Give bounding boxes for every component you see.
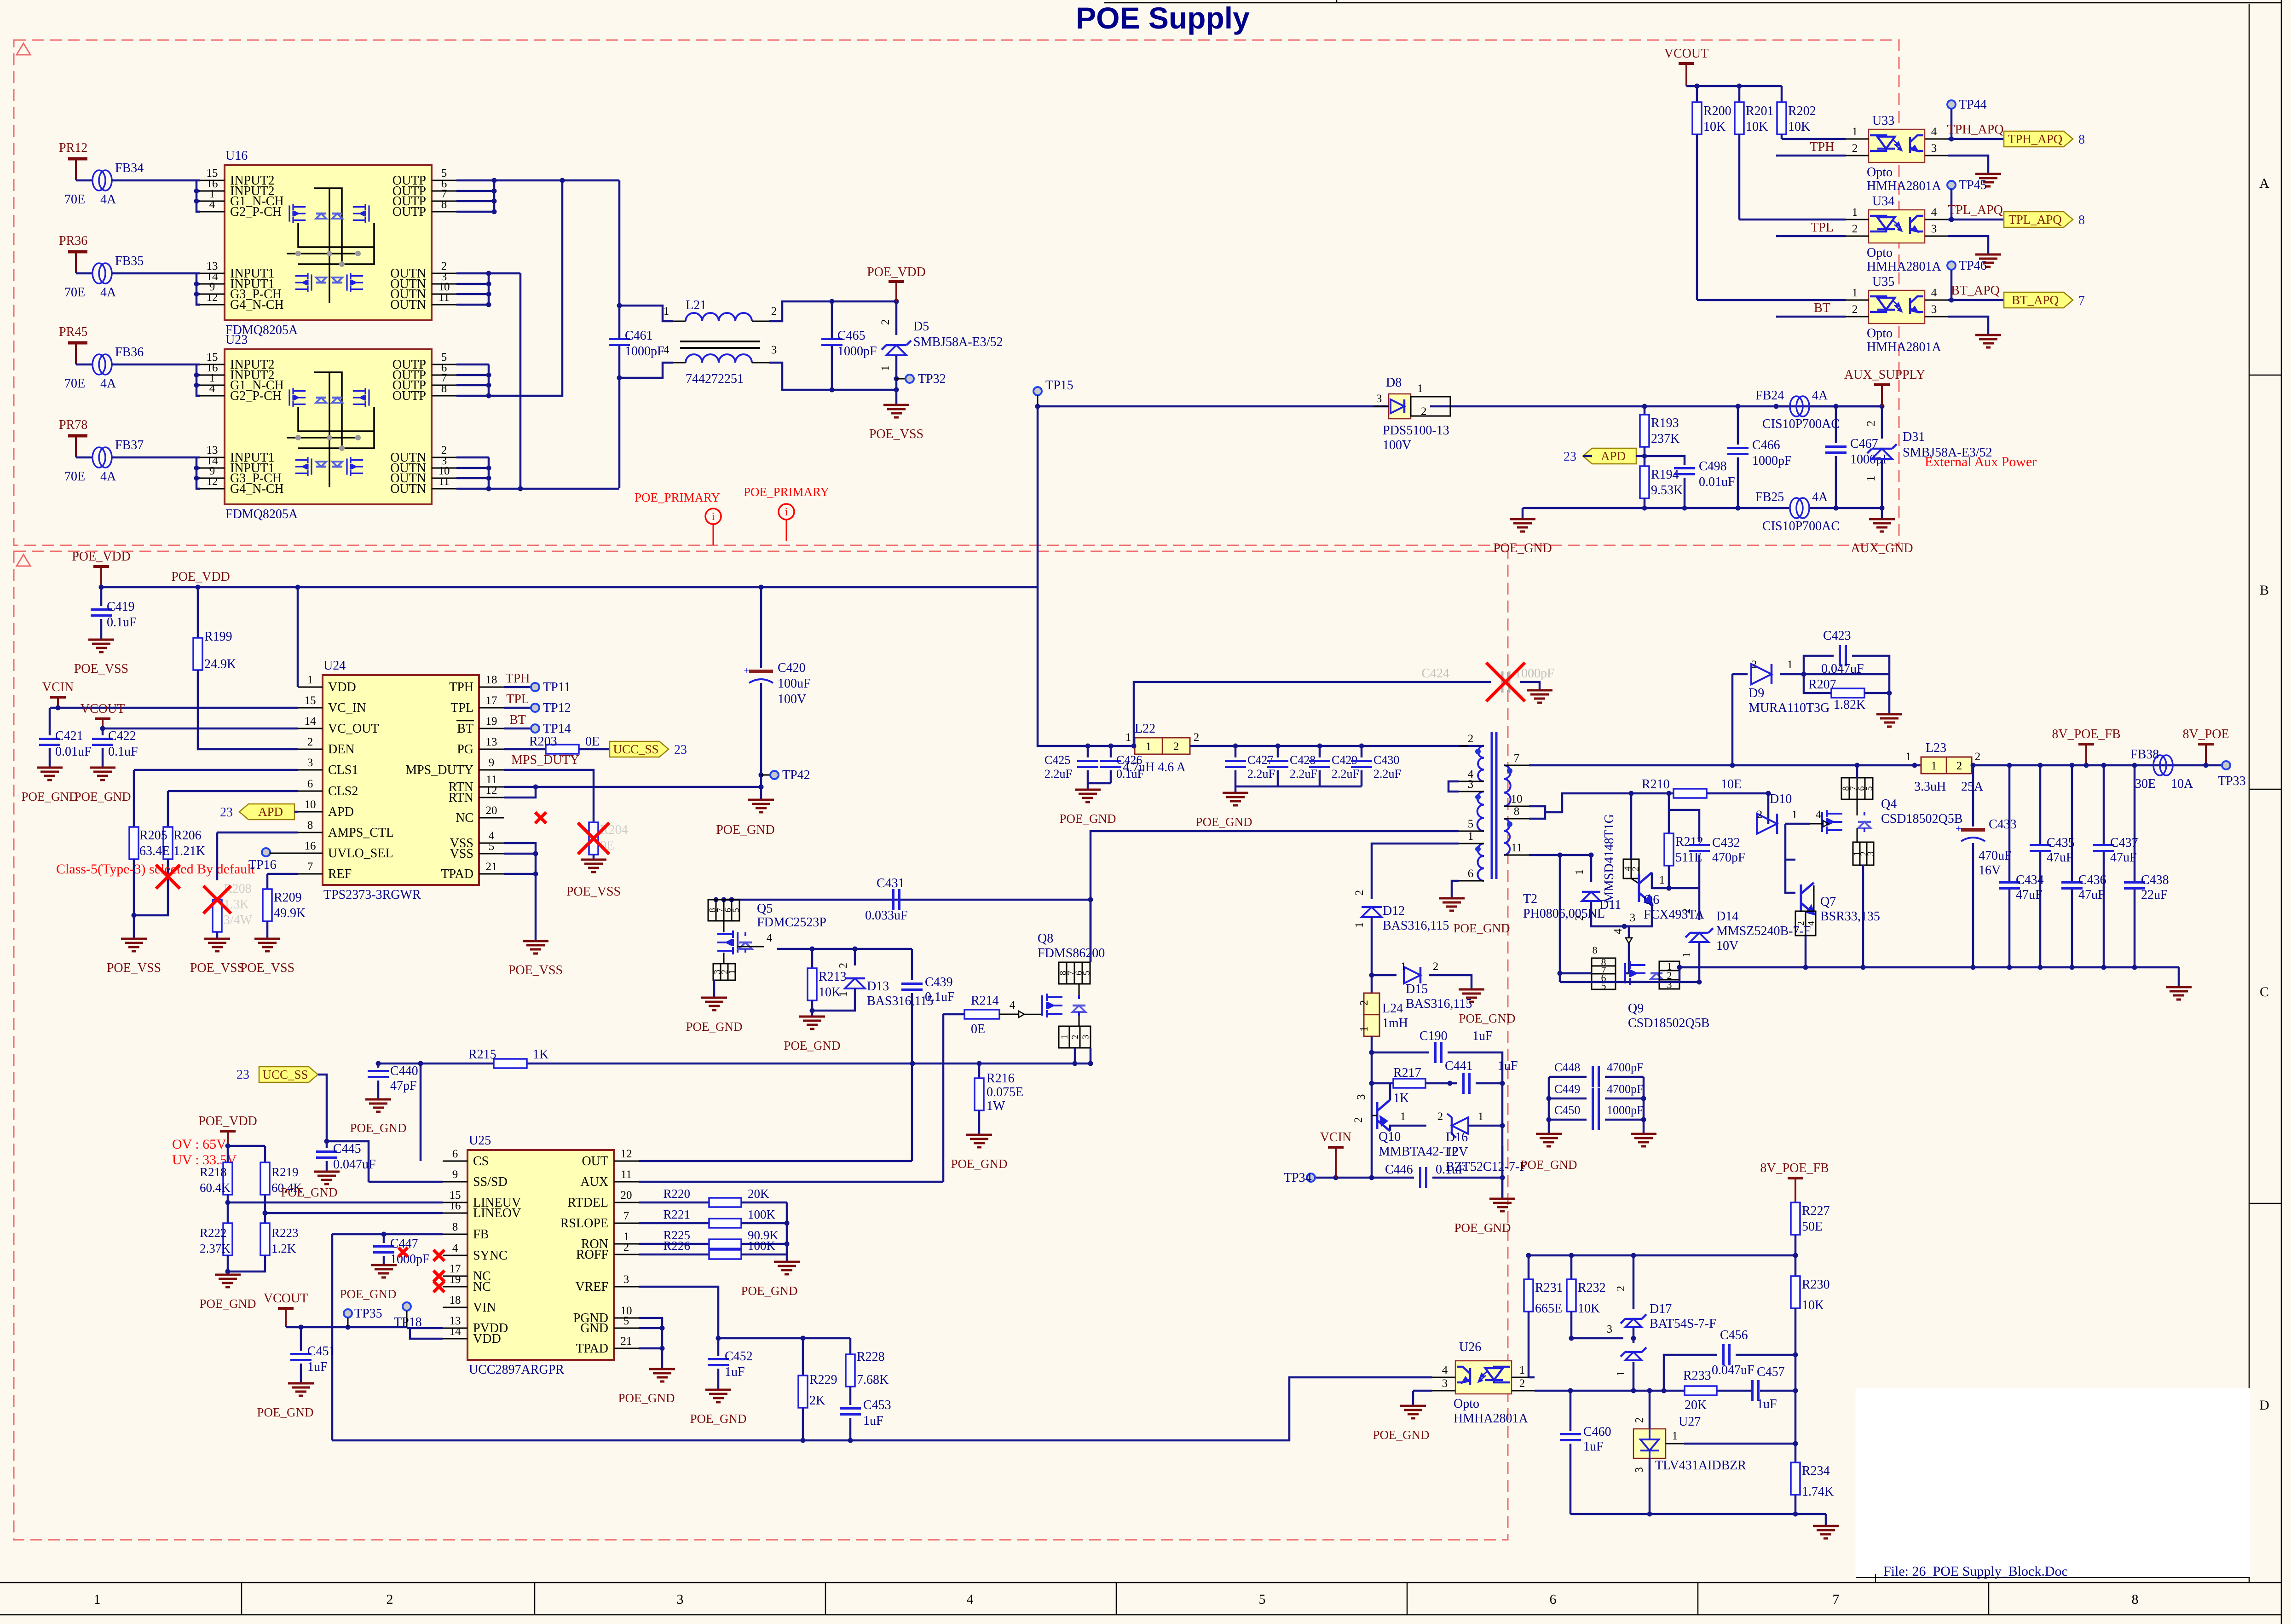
svg-text:PH0806,005NL: PH0806,005NL (1523, 907, 1605, 921)
svg-text:OUTN: OUTN (390, 482, 426, 496)
svg-text:POE_VDD: POE_VDD (72, 549, 131, 564)
svg-text:1K: 1K (533, 1047, 548, 1062)
svg-text:TPL: TPL (506, 692, 529, 706)
svg-text:TPH: TPH (1810, 140, 1835, 154)
svg-text:70E: 70E (64, 469, 85, 484)
svg-text:Q10: Q10 (1379, 1130, 1401, 1144)
svg-text:A: A (2259, 176, 2269, 191)
svg-text:D17: D17 (1650, 1302, 1672, 1316)
svg-text:7: 7 (623, 1210, 629, 1222)
svg-text:VIN: VIN (473, 1300, 496, 1315)
svg-text:1: 1 (94, 1592, 101, 1607)
svg-text:2: 2 (307, 736, 313, 748)
svg-text:U24: U24 (323, 659, 346, 673)
svg-text:TP33: TP33 (2218, 774, 2246, 788)
svg-text:C425: C425 (1045, 753, 1070, 767)
svg-text:POE_GND: POE_GND (257, 1405, 313, 1419)
svg-text:0.1uF: 0.1uF (1436, 1162, 1466, 1177)
svg-text:R200: R200 (1703, 104, 1731, 118)
svg-text:APD: APD (1601, 449, 1626, 463)
svg-text:NC: NC (456, 811, 473, 825)
svg-text:G2_P-CH: G2_P-CH (230, 205, 282, 219)
svg-text:2: 2 (1975, 751, 1981, 763)
svg-text:POE_GND: POE_GND (784, 1039, 840, 1052)
svg-text:0.075E: 0.075E (987, 1085, 1023, 1099)
svg-text:R228: R228 (857, 1350, 885, 1364)
svg-text:100V: 100V (778, 692, 806, 706)
svg-text:100K: 100K (748, 1208, 776, 1221)
svg-text:C430: C430 (1373, 753, 1399, 767)
svg-text:C432: C432 (1712, 836, 1740, 850)
svg-text:1: 1 (1146, 740, 1152, 753)
svg-text:C419: C419 (107, 600, 135, 614)
svg-text:POE_GND: POE_GND (686, 1020, 742, 1034)
svg-text:4: 4 (1931, 126, 1937, 138)
svg-text:PR12: PR12 (59, 141, 87, 155)
svg-text:2: 2 (1353, 890, 1366, 896)
svg-text:2: 2 (1468, 733, 1474, 745)
svg-text:TP16: TP16 (248, 858, 277, 872)
svg-text:POE_GND: POE_GND (1059, 812, 1116, 826)
svg-text:C445: C445 (333, 1142, 361, 1156)
svg-text:1.21K: 1.21K (173, 844, 205, 858)
svg-text:7: 7 (1514, 752, 1520, 764)
svg-text:3: 3 (1866, 851, 1876, 856)
svg-text:RTDEL: RTDEL (567, 1196, 608, 1210)
svg-text:0.01uF: 0.01uF (55, 745, 92, 759)
svg-text:47pF: 47pF (390, 1079, 417, 1093)
svg-text:63.4E: 63.4E (139, 844, 170, 858)
svg-text:8: 8 (2132, 1592, 2139, 1607)
svg-text:C466: C466 (1752, 438, 1780, 452)
svg-text:R205: R205 (139, 828, 167, 843)
svg-text:4: 4 (967, 1592, 974, 1607)
svg-text:4: 4 (452, 1242, 458, 1254)
svg-text:19: 19 (486, 715, 497, 728)
svg-text:2: 2 (1852, 303, 1858, 316)
svg-text:POE_VDD: POE_VDD (171, 570, 230, 584)
svg-text:2: 2 (1437, 1110, 1443, 1123)
svg-text:POE_VSS: POE_VSS (107, 961, 161, 975)
svg-text:POE_GND: POE_GND (1453, 921, 1510, 935)
svg-text:2: 2 (1956, 760, 1962, 772)
svg-text:4A: 4A (100, 469, 116, 484)
svg-text:10K: 10K (1788, 120, 1810, 134)
svg-text:R199: R199 (204, 630, 232, 644)
svg-text:100uF: 100uF (778, 676, 811, 691)
svg-text:C461: C461 (625, 329, 653, 343)
svg-text:11: 11 (621, 1168, 632, 1181)
svg-text:C441: C441 (1445, 1059, 1473, 1073)
svg-text:21: 21 (486, 861, 497, 873)
svg-text:1: 1 (1792, 809, 1798, 821)
svg-text:GND: GND (580, 1321, 608, 1335)
svg-text:D8: D8 (1386, 376, 1402, 390)
svg-text:6: 6 (452, 1148, 458, 1160)
svg-text:2: 2 (1633, 1417, 1645, 1423)
svg-text:100K: 100K (748, 1239, 776, 1253)
svg-text:File: 26_POE Supply_Block.D: File: 26_POE Supply_Block.Doc (1883, 1564, 2068, 1579)
svg-text:1: 1 (1060, 1035, 1070, 1040)
svg-text:8V_POE_FB: 8V_POE_FB (1760, 1161, 1829, 1175)
svg-text:2: 2 (1173, 740, 1179, 753)
svg-text:60.4K: 60.4K (200, 1181, 231, 1195)
svg-text:2: 2 (1757, 809, 1763, 821)
svg-text:237K: 237K (1651, 432, 1679, 446)
svg-text:1: 1 (837, 991, 849, 997)
svg-text:TP35: TP35 (354, 1306, 382, 1321)
svg-text:7: 7 (1833, 1592, 1840, 1607)
svg-text:23: 23 (237, 1068, 249, 1082)
svg-text:10K: 10K (1578, 1301, 1600, 1316)
svg-text:POE_GND: POE_GND (199, 1297, 256, 1311)
svg-text:C453: C453 (863, 1398, 891, 1412)
svg-text:6: 6 (1550, 1592, 1557, 1607)
svg-text:POE_GND: POE_GND (1373, 1428, 1429, 1442)
svg-text:POE_PRIMARY: POE_PRIMARY (635, 491, 720, 504)
svg-text:16: 16 (305, 840, 316, 852)
svg-text:C421: C421 (55, 729, 83, 743)
svg-text:8: 8 (441, 198, 447, 211)
svg-text:12V: 12V (1446, 1145, 1468, 1159)
svg-text:CLS2: CLS2 (328, 784, 358, 798)
svg-text:70E: 70E (64, 376, 85, 391)
svg-text:C434: C434 (2016, 873, 2044, 887)
svg-text:2: 2 (879, 319, 892, 325)
svg-text:6: 6 (307, 778, 313, 790)
svg-text:7: 7 (2078, 294, 2085, 308)
svg-text:C449: C449 (1554, 1082, 1580, 1096)
svg-text:R210: R210 (1642, 777, 1670, 792)
svg-text:G4_N-CH: G4_N-CH (230, 482, 284, 496)
svg-text:TPH: TPH (449, 680, 473, 694)
svg-text:PR36: PR36 (59, 234, 87, 248)
svg-text:PR78: PR78 (59, 418, 87, 432)
svg-text:TPL: TPL (450, 701, 473, 715)
svg-text:POE_VSS: POE_VSS (190, 961, 244, 975)
svg-text:R231: R231 (1535, 1281, 1563, 1295)
svg-text:0.033uF: 0.033uF (865, 908, 908, 923)
svg-text:11: 11 (439, 291, 450, 304)
svg-text:L22: L22 (1135, 722, 1155, 736)
svg-text:30E: 30E (2135, 777, 2156, 791)
svg-text:1: 1 (1852, 206, 1858, 219)
svg-text:0.047uF: 0.047uF (1712, 1363, 1754, 1377)
svg-text:OUTN: OUTN (390, 298, 426, 312)
svg-text:3: 3 (1630, 912, 1636, 924)
svg-text:3: 3 (677, 1592, 684, 1607)
svg-text:2.2uF: 2.2uF (1373, 767, 1401, 780)
svg-text:VDD: VDD (473, 1332, 501, 1346)
svg-text:3: 3 (1931, 223, 1937, 235)
svg-text:9: 9 (489, 757, 495, 769)
svg-text:4A: 4A (1812, 490, 1828, 504)
svg-text:C440: C440 (390, 1064, 418, 1078)
svg-text:2: 2 (1865, 421, 1877, 427)
svg-text:2: 2 (1358, 1000, 1370, 1006)
svg-text:Opto: Opto (1867, 246, 1893, 260)
svg-text:R217: R217 (1393, 1066, 1421, 1080)
svg-text:POE_GND: POE_GND (716, 823, 775, 837)
svg-text:U23: U23 (225, 333, 248, 347)
svg-text:0.047uF: 0.047uF (333, 1157, 376, 1172)
svg-text:PDS5100-13: PDS5100-13 (1383, 423, 1449, 438)
svg-text:POE_VSS: POE_VSS (508, 963, 563, 977)
svg-text:2: 2 (387, 1592, 393, 1607)
svg-text:1: 1 (879, 365, 892, 371)
svg-text:Opto: Opto (1867, 326, 1893, 341)
svg-text:AMPS_CTL: AMPS_CTL (328, 826, 394, 840)
svg-text:U33: U33 (1872, 114, 1894, 128)
svg-text:R223: R223 (271, 1226, 299, 1240)
svg-text:POE_VSS: POE_VSS (566, 884, 621, 899)
svg-text:Q7: Q7 (1820, 895, 1836, 909)
svg-text:4: 4 (664, 344, 669, 356)
svg-text:16: 16 (450, 1200, 461, 1212)
svg-text:R207: R207 (1808, 677, 1836, 692)
svg-text:SS/SD: SS/SD (473, 1175, 508, 1189)
svg-text:49.9K: 49.9K (274, 906, 306, 920)
svg-text:2: 2 (1421, 405, 1427, 418)
svg-text:RTN: RTN (449, 791, 473, 805)
svg-text:C452: C452 (725, 1349, 753, 1364)
svg-text:511E: 511E (1675, 850, 1702, 865)
svg-text:19: 19 (450, 1273, 461, 1286)
svg-text:POE_GND: POE_GND (281, 1185, 337, 1199)
svg-text:HMHA2801A: HMHA2801A (1867, 179, 1942, 193)
svg-text:Opto: Opto (1867, 165, 1893, 179)
svg-text:R230: R230 (1802, 1277, 1830, 1292)
svg-text:1uF: 1uF (863, 1414, 883, 1428)
svg-text:16V: 16V (1979, 863, 2001, 878)
svg-text:1: 1 (1401, 960, 1407, 973)
svg-text:1: 1 (1931, 760, 1937, 772)
svg-text:BT: BT (509, 713, 526, 727)
svg-text:U16: U16 (225, 149, 248, 163)
svg-text:2: 2 (1751, 659, 1757, 671)
svg-text:R193: R193 (1651, 416, 1679, 430)
svg-text:20: 20 (486, 804, 497, 817)
svg-text:1: 1 (1905, 751, 1911, 763)
svg-text:1: 1 (1125, 731, 1131, 744)
svg-text:HMHA2801A: HMHA2801A (1867, 260, 1942, 274)
svg-text:POE_VSS: POE_VSS (74, 662, 128, 676)
svg-text:7.68K: 7.68K (857, 1373, 889, 1387)
svg-text:CSD18502Q5B: CSD18502Q5B (1881, 812, 1962, 826)
svg-text:POE_VDD: POE_VDD (198, 1114, 257, 1128)
svg-text:744272251: 744272251 (686, 372, 744, 386)
svg-text:22uF: 22uF (2141, 888, 2168, 902)
svg-text:4: 4 (1816, 809, 1822, 821)
svg-text:23: 23 (220, 805, 233, 820)
svg-text:R220: R220 (663, 1187, 690, 1201)
svg-text:8: 8 (2078, 133, 2085, 147)
svg-text:2: 2 (623, 1241, 629, 1254)
svg-text:3: 3 (1355, 1094, 1368, 1100)
svg-text:23: 23 (674, 743, 687, 757)
svg-text:Class-5(Type-3) selected By de: Class-5(Type-3) selected By default (56, 861, 255, 877)
svg-text:8: 8 (452, 1221, 458, 1233)
svg-text:TP45: TP45 (1959, 178, 1987, 192)
svg-text:TP34: TP34 (1284, 1171, 1312, 1185)
svg-text:R222: R222 (200, 1226, 227, 1240)
svg-text:FB25: FB25 (1755, 490, 1784, 504)
svg-text:U34: U34 (1872, 194, 1894, 208)
svg-text:i: i (712, 511, 715, 523)
svg-text:TP15: TP15 (1045, 378, 1073, 393)
svg-text:VCOUT: VCOUT (1664, 46, 1708, 61)
svg-text:47uF: 47uF (2078, 888, 2105, 902)
svg-text:R213: R213 (819, 970, 847, 984)
svg-text:4A: 4A (100, 376, 116, 391)
svg-text:3.3uH: 3.3uH (1914, 780, 1946, 794)
svg-text:1: 1 (1852, 287, 1858, 299)
svg-text:FDMQ8205A: FDMQ8205A (225, 507, 298, 521)
svg-text:FB34: FB34 (115, 161, 144, 175)
svg-text:POE Supply: POE Supply (1076, 1, 1250, 35)
svg-text:Q5: Q5 (757, 902, 773, 916)
svg-text:4: 4 (767, 932, 773, 944)
svg-text:C433: C433 (1989, 817, 2017, 832)
svg-text:3: 3 (771, 344, 777, 356)
svg-text:10K: 10K (1802, 1298, 1824, 1312)
svg-text:External Aux Power: External Aux Power (1925, 454, 2037, 469)
svg-text:5: 5 (1259, 1592, 1266, 1607)
svg-text:POE_GND: POE_GND (1520, 1158, 1577, 1172)
svg-text:D12: D12 (1383, 904, 1405, 918)
svg-text:C435: C435 (2047, 836, 2075, 850)
svg-text:1: 1 (1865, 476, 1877, 482)
svg-text:C437: C437 (2110, 836, 2138, 850)
svg-text:PG: PG (457, 742, 473, 757)
svg-text:U27: U27 (1679, 1415, 1701, 1429)
svg-text:47uF: 47uF (2110, 850, 2137, 865)
svg-text:C424: C424 (1421, 666, 1449, 681)
svg-text:1K: 1K (1393, 1091, 1409, 1105)
svg-text:NC: NC (473, 1280, 491, 1294)
svg-text:TPAD: TPAD (441, 867, 473, 881)
svg-text:18: 18 (486, 674, 497, 686)
svg-text:2: 2 (1631, 867, 1641, 871)
svg-text:4: 4 (1010, 999, 1016, 1011)
svg-text:TP42: TP42 (782, 768, 810, 782)
svg-text:D10: D10 (1770, 792, 1792, 806)
svg-text:4: 4 (1442, 1364, 1448, 1376)
svg-text:2.37K: 2.37K (200, 1242, 231, 1255)
svg-text:21: 21 (621, 1335, 632, 1347)
svg-text:VCOUT: VCOUT (81, 702, 125, 716)
svg-text:R201: R201 (1746, 104, 1774, 118)
svg-text:CIS10P700AC: CIS10P700AC (1762, 519, 1840, 533)
svg-text:i: i (785, 506, 788, 518)
svg-text:D5: D5 (913, 319, 929, 334)
svg-text:TLV431AIDBZR: TLV431AIDBZR (1655, 1458, 1746, 1473)
svg-text:FB: FB (473, 1227, 489, 1242)
svg-text:R233: R233 (1683, 1369, 1711, 1383)
svg-text:R234: R234 (1802, 1464, 1830, 1478)
svg-text:1: 1 (1478, 1110, 1484, 1123)
svg-text:TPH_APQ: TPH_APQ (2008, 132, 2063, 146)
svg-text:1uF: 1uF (1757, 1397, 1777, 1411)
svg-text:1000pF: 1000pF (1607, 1104, 1643, 1117)
svg-text:CSD18502Q5B: CSD18502Q5B (1628, 1016, 1709, 1030)
svg-text:MMSZ5240B-7-F: MMSZ5240B-7-F (1716, 924, 1811, 938)
svg-text:POE_GND: POE_GND (618, 1391, 675, 1405)
svg-text:TPL_APQ: TPL_APQ (1948, 203, 2003, 217)
svg-text:5: 5 (623, 1315, 629, 1327)
svg-text:CLS1: CLS1 (328, 763, 358, 777)
svg-text:POE_GND: POE_GND (340, 1287, 396, 1301)
svg-text:POE_GND: POE_GND (1493, 541, 1552, 555)
svg-text:R206: R206 (173, 828, 202, 843)
svg-text:FB37: FB37 (115, 438, 144, 452)
svg-text:MPS_DUTY: MPS_DUTY (511, 753, 579, 767)
svg-text:BAS316,115: BAS316,115 (867, 994, 933, 1008)
svg-text:BAS316,115: BAS316,115 (1383, 919, 1449, 933)
svg-text:2: 2 (1519, 1377, 1525, 1390)
svg-text:POE_GND: POE_GND (21, 790, 78, 803)
svg-text:POE_GND: POE_GND (741, 1284, 797, 1298)
svg-text:12: 12 (486, 784, 497, 797)
svg-text:C448: C448 (1554, 1061, 1580, 1074)
svg-text:C457: C457 (1757, 1365, 1785, 1379)
svg-text:HMHA2801A: HMHA2801A (1454, 1411, 1529, 1426)
svg-text:OV : 65V: OV : 65V (172, 1137, 226, 1152)
svg-text:665E: 665E (1535, 1301, 1562, 1316)
svg-text:VCIN: VCIN (42, 680, 74, 694)
svg-text:C431: C431 (877, 876, 905, 890)
svg-text:2.2uF: 2.2uF (1290, 767, 1317, 780)
svg-text:D: D (2259, 1398, 2269, 1413)
svg-text:PR45: PR45 (59, 325, 87, 339)
svg-text:2: 2 (837, 963, 849, 968)
svg-text:ROFF: ROFF (576, 1248, 608, 1262)
svg-text:4: 4 (1931, 206, 1937, 219)
svg-text:10: 10 (305, 798, 316, 811)
svg-text:Q8: Q8 (1038, 931, 1053, 946)
svg-text:R226: R226 (663, 1239, 690, 1253)
svg-text:70E: 70E (64, 192, 85, 207)
svg-text:POE_VSS: POE_VSS (240, 961, 294, 975)
svg-text:10V: 10V (1716, 939, 1738, 953)
svg-text:1: 1 (1659, 874, 1665, 886)
svg-text:1: 1 (1468, 830, 1474, 843)
svg-text:4A: 4A (100, 285, 116, 300)
svg-text:SYNC: SYNC (473, 1248, 508, 1263)
svg-text:47uF: 47uF (2016, 888, 2043, 902)
svg-text:POE_VSS: POE_VSS (869, 427, 923, 441)
svg-text:R218: R218 (200, 1165, 227, 1179)
svg-text:G4_N-CH: G4_N-CH (230, 298, 284, 312)
svg-text:0.1uF: 0.1uF (925, 990, 955, 1004)
svg-text:2: 2 (1574, 915, 1586, 921)
svg-text:AUX_GND: AUX_GND (1851, 541, 1913, 555)
svg-text:U35: U35 (1872, 275, 1894, 289)
svg-text:R229: R229 (809, 1373, 837, 1387)
svg-text:MPS_DUTY: MPS_DUTY (405, 763, 473, 777)
svg-text:1.2K: 1.2K (271, 1242, 296, 1255)
svg-text:U26: U26 (1459, 1340, 1481, 1354)
svg-text:10: 10 (1511, 793, 1523, 805)
svg-text:1: 1 (1519, 1364, 1525, 1376)
svg-text:0.1uF: 0.1uF (107, 615, 137, 630)
svg-text:5: 5 (731, 908, 741, 913)
svg-text:100V: 100V (1383, 438, 1411, 452)
svg-text:2K: 2K (809, 1393, 825, 1408)
svg-text:POE_GND: POE_GND (951, 1157, 1007, 1171)
svg-text:TP14: TP14 (543, 722, 571, 736)
svg-text:R214: R214 (971, 994, 999, 1008)
